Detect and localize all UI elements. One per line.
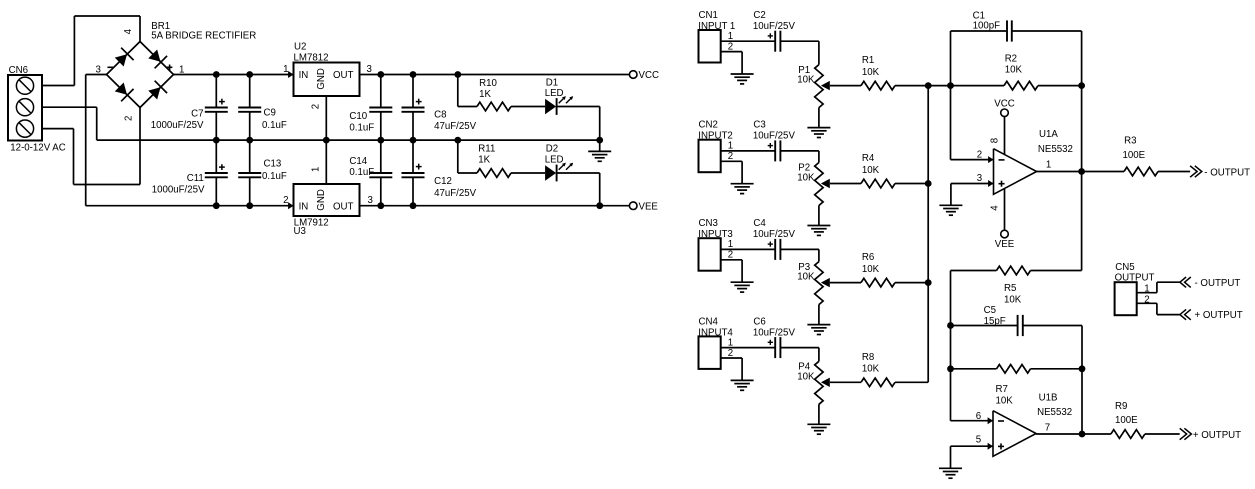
svg-text:CN3: CN3 (699, 218, 718, 229)
svg-text:7: 7 (1045, 422, 1050, 433)
svg-text:R1: R1 (862, 55, 874, 66)
svg-text:2: 2 (123, 116, 134, 121)
svg-text:0.1uF: 0.1uF (349, 123, 374, 134)
svg-text:C12: C12 (434, 176, 452, 187)
svg-text:C10: C10 (349, 111, 367, 122)
svg-text:1: 1 (728, 239, 733, 250)
svg-text:IN: IN (299, 70, 309, 81)
svg-text:OUT: OUT (333, 70, 354, 81)
svg-text:1000uF/25V: 1000uF/25V (152, 185, 205, 196)
svg-text:D2: D2 (546, 144, 558, 155)
svg-text:100E: 100E (1123, 150, 1146, 161)
svg-text:1: 1 (1046, 160, 1051, 171)
svg-text:CN1: CN1 (699, 10, 718, 21)
svg-text:10K: 10K (797, 75, 815, 86)
svg-text:U1A: U1A (1039, 129, 1058, 140)
svg-text:5A BRIDGE RECTIFIER: 5A BRIDGE RECTIFIER (151, 31, 256, 42)
svg-text:1K: 1K (479, 89, 491, 100)
svg-text:C4: C4 (753, 218, 766, 229)
svg-text:C13: C13 (264, 159, 282, 170)
svg-text:8: 8 (989, 138, 1000, 143)
svg-text:U3: U3 (294, 226, 306, 237)
svg-text:C8: C8 (434, 110, 446, 121)
svg-text:47uF/25V: 47uF/25V (434, 121, 477, 132)
svg-text:1: 1 (283, 64, 288, 75)
svg-text:2: 2 (283, 195, 288, 206)
svg-text:1: 1 (310, 167, 321, 172)
svg-text:10K: 10K (1004, 295, 1022, 306)
svg-text:R2: R2 (1005, 53, 1017, 64)
svg-text:R7: R7 (996, 384, 1008, 395)
svg-text:C6: C6 (753, 316, 765, 327)
svg-text:100pF: 100pF (973, 20, 1001, 31)
svg-text:10K: 10K (996, 396, 1014, 407)
svg-text:4: 4 (123, 28, 134, 34)
svg-text:0.1uF: 0.1uF (262, 171, 287, 182)
svg-text:- OUTPUT: - OUTPUT (1204, 167, 1250, 178)
svg-text:D1: D1 (546, 77, 558, 88)
svg-text:R4: R4 (862, 153, 875, 164)
svg-text:LED: LED (545, 88, 564, 99)
svg-text:47uF/25V: 47uF/25V (434, 188, 477, 199)
svg-text:NE5532: NE5532 (1038, 144, 1073, 155)
svg-text:10uF/25V: 10uF/25V (753, 327, 796, 338)
svg-text:10K: 10K (797, 272, 815, 283)
svg-text:U1B: U1B (1039, 392, 1058, 403)
svg-text:CN6: CN6 (9, 65, 28, 76)
svg-text:1: 1 (728, 141, 733, 152)
svg-text:R11: R11 (478, 144, 495, 155)
svg-text:VEE: VEE (995, 239, 1015, 250)
svg-text:VEE: VEE (639, 201, 659, 212)
svg-text:LED: LED (545, 155, 564, 166)
svg-text:R10: R10 (479, 78, 497, 89)
svg-text:5: 5 (976, 435, 981, 446)
svg-text:C2: C2 (753, 10, 765, 21)
svg-text:10uF/25V: 10uF/25V (753, 131, 796, 142)
svg-text:1K: 1K (478, 155, 490, 166)
svg-text:10K: 10K (797, 371, 815, 382)
svg-text:2: 2 (977, 149, 982, 160)
svg-text:1: 1 (728, 31, 733, 42)
svg-text:10K: 10K (797, 173, 815, 184)
svg-text:10K: 10K (862, 165, 880, 176)
svg-text:C9: C9 (264, 108, 276, 119)
svg-text:+ OUTPUT: + OUTPUT (1193, 430, 1241, 441)
svg-text:+ OUTPUT: + OUTPUT (1195, 310, 1243, 321)
svg-text:10K: 10K (862, 264, 880, 275)
svg-text:R8: R8 (862, 352, 874, 363)
svg-text:0.1uF: 0.1uF (349, 167, 374, 178)
svg-text:OUT: OUT (333, 201, 354, 212)
svg-text:C14: C14 (349, 156, 367, 167)
svg-text:12-0-12V AC: 12-0-12V AC (10, 142, 65, 153)
svg-text:3: 3 (368, 195, 373, 206)
svg-text:OUTPUT: OUTPUT (1115, 272, 1155, 283)
svg-text:R6: R6 (862, 252, 874, 263)
svg-text:U2: U2 (294, 42, 306, 53)
svg-text:100E: 100E (1115, 415, 1138, 426)
svg-text:GND: GND (316, 189, 327, 211)
svg-text:R3: R3 (1124, 136, 1136, 147)
svg-text:R9: R9 (1115, 401, 1127, 412)
svg-text:3: 3 (367, 64, 372, 75)
svg-text:10uF/25V: 10uF/25V (753, 21, 796, 32)
svg-text:C7: C7 (191, 109, 203, 120)
svg-text:1: 1 (728, 337, 733, 348)
svg-text:C3: C3 (753, 120, 765, 131)
svg-text:3: 3 (977, 173, 982, 184)
svg-text:2: 2 (310, 104, 321, 109)
svg-text:10K: 10K (862, 364, 880, 375)
svg-text:- OUTPUT: - OUTPUT (1195, 278, 1241, 289)
svg-text:LM7812: LM7812 (294, 53, 329, 64)
svg-text:CN2: CN2 (699, 120, 718, 131)
svg-text:1000uF/25V: 1000uF/25V (151, 120, 204, 131)
svg-text:C11: C11 (187, 173, 204, 184)
svg-text:10K: 10K (862, 67, 880, 78)
svg-text:GND: GND (316, 68, 327, 90)
svg-text:4: 4 (989, 205, 1000, 211)
svg-text:15pF: 15pF (984, 316, 1006, 327)
svg-text:VCC: VCC (994, 98, 1014, 109)
svg-text:C5: C5 (984, 305, 996, 316)
svg-text:R5: R5 (1004, 283, 1016, 294)
svg-text:CN4: CN4 (699, 316, 719, 327)
svg-text:10uF/25V: 10uF/25V (753, 229, 796, 240)
svg-text:VCC: VCC (639, 70, 659, 81)
svg-text:IN: IN (299, 201, 309, 212)
svg-text:10K: 10K (1005, 65, 1023, 76)
svg-text:NE5532: NE5532 (1037, 407, 1072, 418)
svg-text:0.1uF: 0.1uF (262, 120, 287, 131)
